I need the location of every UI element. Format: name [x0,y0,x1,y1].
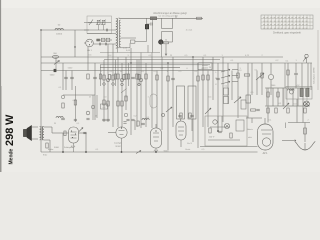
wire v x126 [125,57,127,110]
mains cord symbol [296,143,314,151]
wire mains horizontal [282,140,296,142]
resistor R25 [287,108,289,113]
diode arrow D1 [54,61,60,65]
wire V3 left [64,132,69,134]
box comp Dr1 [246,95,251,103]
band filter box [87,16,112,34]
wire V4 top [155,124,157,128]
wire v x137 [136,60,138,127]
wire v x311 [310,63,312,90]
wire V5 bottom [180,140,182,147]
wire v x131 lower [130,120,132,135]
bus y64.8 short [100,64,210,66]
resistor R4 [103,75,105,80]
resistor R27 [287,70,289,75]
resistor Rc4 [123,75,125,80]
arrow V2 column [121,89,127,94]
output valve V4 envelope [151,128,162,148]
winding bumps [288,89,295,91]
capacitor C3 [105,29,107,32]
transformer winding dark 1 [300,89,303,97]
wire v x152 [151,57,153,128]
inner circle 2 [213,120,217,124]
wire inner bottom [208,139,240,141]
resistor R9 [145,74,147,79]
power box verticals [217,116,219,132]
cap x75 y120 [74,118,77,120]
trimmer capacitor C1 [97,20,100,24]
wire x95 lower [94,95,96,120]
psu v x283 [282,88,284,106]
capacitor C13 [131,76,135,78]
bus y67.3 short [100,66,180,68]
resistor R11 [167,76,169,81]
coil bottom x58 [56,116,63,118]
psu low rail [288,122,310,124]
wire v x173 [172,57,174,127]
psu v x278 [277,88,279,106]
capacitor C7 branch [147,23,151,25]
wire V3 right [79,132,87,134]
down arrow to bus [165,44,167,56]
circle x163 [161,113,164,116]
resistor R26 [304,108,306,113]
transformer winding dark 2 [306,89,309,97]
pin circle c1 [103,83,106,86]
component marks y44 [98,43,100,46]
loudspeaker LS [27,126,32,141]
wire v x288 upper [287,63,289,88]
resistor R14 [202,75,204,80]
svg-text:AZ 1: AZ 1 [263,152,269,155]
wire v x232 [231,71,233,101]
svg-text:Entbr.: Entbr. [48,148,54,151]
valve V1 mixer [86,39,94,47]
wire T4 to anode bus [44,126,52,128]
wire v x115 [115,60,117,86]
psu v x303 [302,88,304,123]
diag arrow switch [234,97,241,103]
wire v x146 top [146,18,148,41]
wire V6 top [264,118,266,124]
mains plug ticks [295,141,296,143]
dark dot comps [62,151,64,153]
resistor Rv2 [125,96,127,101]
comp x166 arrow [166,107,172,112]
svg-text:Schaltplan 298W: Schaltplan 298W [313,67,316,84]
psu v x308 [307,63,309,88]
resistor on V3 input [64,131,66,136]
circle comp2 [139,78,142,81]
wire x152 long vertical [152,18,154,52]
resistor R18 [261,73,263,78]
wire v x228 [227,63,229,104]
valve small x152 y100 [150,94,157,108]
svg-text:Cu 3: Cu 3 [187,143,192,145]
wire v x141 upper [140,53,142,58]
wire V2 left [108,132,116,134]
svg-text:Netztr.: Netztr. [247,128,253,131]
wire filter mid2 [87,33,116,35]
resistor R6 [117,74,119,79]
wire v x146 [145,63,147,127]
bus AVC y57 [41,56,283,58]
antenna coil L1 [55,28,63,30]
resistor R19 [267,92,269,97]
diag arrow v5 [205,108,211,114]
wire V1 left [84,42,86,44]
wire v x203 [202,57,204,127]
wire v x238 [237,63,239,118]
wire v x56 [55,57,57,71]
wire v x95 [94,63,96,95]
detector valve V2 [116,127,127,138]
bus y60 short [104,59,220,61]
svg-text:5000: 5000 [54,147,60,149]
wire v x152 upper [151,53,153,58]
wire v x63 [62,63,64,90]
resistor R3 [87,74,89,79]
wire x108 y100 [107,101,109,106]
wire top rail [119,17,203,19]
wire v x72 [71,71,73,91]
resistor Rm1 [74,100,76,105]
pin circle c3 [121,83,124,86]
psu drop x285 [285,123,287,129]
wire v x139b [138,60,140,86]
oscillator coil T1 winding bumps [116,19,118,49]
resistor R10 [156,75,158,80]
variable resistor arrow [256,73,264,80]
wire v x104 [103,60,105,122]
wire v x162 [161,57,163,130]
resistor Rc1 [99,74,101,79]
circle v2col [124,113,128,117]
wire filter top [84,22,111,24]
lamp circle inner [224,123,229,128]
wire speaker bottom [32,138,39,140]
psu v x293 [292,88,294,106]
circle x93 y107 [91,105,94,108]
gang drop right [191,119,193,131]
output transformer T4 secondary winding [43,127,45,140]
potentiometer circle [268,74,273,79]
svg-text:Dr: Dr [89,97,91,99]
svg-text:Entst.: Entst. [185,148,191,151]
variable capacitor arrow [89,20,93,26]
svg-text:298: 298 [4,128,16,146]
oscillator coil T1 secondary [119,20,120,47]
heater circle [290,90,294,94]
resistor Rc6 [138,75,140,80]
svg-text:10000: 10000 [56,34,63,36]
tuning gang frame right [188,86,196,119]
capacitor C11 [70,76,74,78]
wire filter mid3 [96,39,112,41]
wire v x86 lower [85,133,87,152]
wire coil taps right [121,37,136,39]
V6 inner circle [262,138,270,146]
comp marks y118 [61,117,65,119]
svg-text:220 V~: 220 V~ [209,137,216,139]
switch stack box 2 [224,97,229,104]
wire x285 upper [284,63,286,88]
wire v x135 lower [134,120,136,130]
gang bottom comps [178,114,182,116]
svg-text:Drehkond. ganz eingedreht: Drehkond. ganz eingedreht [273,32,301,35]
resistor Rm2 [62,103,64,108]
wire v x223 [222,57,224,122]
wire y44 to x146 [135,41,147,43]
capacitor C10 [64,76,68,78]
V4 electrodes [153,132,159,134]
wire drop from rail [175,16,177,19]
inner box [236,120,244,131]
V2 inner electrodes [119,130,125,132]
circle comp [120,78,123,81]
psu v x297 low [296,99,298,123]
tuning gang frame left [177,86,185,119]
wire v x208 [207,71,209,128]
wire T1 top to rail [118,18,120,19]
V6 anode lines [261,129,272,131]
cap v2col [123,121,126,123]
scan edge left [0,0,2,172]
electrolytic C9 [159,40,163,44]
gang drop left [180,119,182,121]
wire v x218 [217,63,219,130]
psu cell box right [287,88,307,106]
svg-text:L: L [215,72,216,74]
switch stack box 1 [224,88,229,95]
wire coil core down [116,48,118,52]
filter inner stubs [98,25,100,30]
rectifier valve V6 envelope [258,124,274,150]
arrow at bus [136,151,141,154]
V5 electrodes [178,126,184,128]
resistor x122 y101 [121,101,123,106]
junction dot [74,46,75,47]
psu cell box left [267,88,285,106]
psu top rail [265,87,310,89]
psu v x268 [267,88,269,123]
loop wire lower [162,31,173,33]
wire v x93 [92,95,94,120]
oscillator coil T1 core [116,18,118,48]
component coil-right box [131,40,135,43]
resistor R16v [244,74,250,76]
box comp x243 [241,100,246,109]
circle x63 y97 [61,95,64,98]
wire v x141 [140,57,142,128]
capacitor C14 [171,77,175,79]
svg-text:W 62: W 62 [115,146,121,148]
V3 bottom wire [73,143,75,152]
wire v x75 from antenna region [74,30,76,57]
wire x148 extend [147,45,149,53]
resistor R12 [197,76,199,81]
power section box [205,116,247,146]
wire speaker top [32,126,39,128]
svg-text:W: W [4,114,16,125]
bandswitch arrow 3 [221,82,230,85]
coil y119 x145 [142,118,149,120]
right edge faint line [317,30,319,90]
wire antenna horizontal [41,29,89,31]
grid arrow V3 [79,128,83,132]
svg-text:Lautspr.: Lautspr. [114,142,122,145]
resistor R15 [237,73,239,78]
output transformer T4 primary winding [40,127,42,140]
svg-text:0,1: 0,1 [77,123,80,125]
wire v x118 [117,57,119,127]
wire v x252b [251,63,253,95]
wire y95 link [63,94,95,96]
wire v x113 [112,44,114,127]
wire v x262 [261,63,263,95]
wire filter mid1 [84,29,116,31]
wire v x248 [247,63,249,118]
psu v x298 [297,88,299,106]
resistor R1 [150,17,156,20]
svg-text:0,3: 0,3 [103,107,106,109]
wire v x66 [65,71,67,91]
wire v x157 [156,71,158,129]
antenna post A [305,54,308,57]
capacitor C15 [216,77,220,79]
svg-text:W: W [54,123,56,125]
wire T4 bottom to HT [44,139,50,141]
wire bus y151 bottom right [135,151,258,153]
antenna arrow [303,58,306,62]
wire v x213 [212,57,214,100]
bandswitch arrow 2 [221,76,230,79]
output transformer T4 core [40,126,42,140]
hum comp marks [251,109,256,111]
comp above arrow [164,42,169,44]
trimmer capacitor C2 [102,20,105,24]
wire v x97 [96,95,98,118]
psu mid rail [265,105,310,107]
power box dark dot [217,130,219,132]
resistor x118 y101 [117,101,119,106]
resistor R5 [112,75,114,80]
wire x161 extend [161,42,163,57]
resistor R24 [275,108,277,113]
table cell text marks [263,17,265,19]
wire V2 bottom [121,138,123,152]
dark junction x55 [54,69,57,72]
bus y52 faint [100,52,160,54]
wire v x100 [100,65,102,86]
switch contact lines [232,69,238,71]
psu arrow [283,103,289,109]
wire v x168 [167,63,169,150]
resistor R8 [136,74,138,79]
capacitor C8 dark [145,25,148,29]
resistor R2 end [197,17,202,19]
fuse Si [304,128,307,134]
bandswitch arrow 1 [221,70,230,73]
wire mains vertical [304,123,306,143]
wire coil bottom [118,47,130,49]
wire v x198 [197,63,199,148]
wire v x271 [270,63,272,74]
wire bus y146 bottom right [200,146,258,148]
capacitor C16 [83,131,86,133]
capacitor C17 [294,72,298,74]
mains transformer box [286,87,312,100]
wire V4 bottom [155,148,157,152]
wire ground bus bottom [41,151,135,153]
circle comp x88 [86,111,90,115]
bus supply y63 [41,62,312,64]
resistor R23 [267,108,269,113]
svg-text:2 x 0,1: 2 x 0,1 [186,30,193,32]
wire antenna drop [306,58,308,63]
component row y40 [97,39,100,42]
V3 grid lines [71,131,77,133]
inner comps [209,128,211,133]
capacitor C12 [93,76,97,78]
valve pin circle [106,78,109,81]
wire v x193 [192,57,194,142]
wire v x131 [130,48,132,120]
wire v x63 lower [62,133,64,152]
wire v x128 [128,63,130,86]
dial lamp La1 [304,101,310,107]
svg-text:Mende: Mende [9,148,15,164]
resistor R7 [125,74,127,79]
wire v x75 mid [74,86,76,122]
wire filter mid4 [93,43,116,45]
switch label box [198,63,212,70]
loop wire upper [161,18,163,28]
wire v x257 [256,71,258,96]
valve V5 envelope [176,121,186,140]
comp y118 row2 [102,118,106,120]
resistor R13 [207,75,209,80]
comp cluster above V2 [137,121,139,126]
wire left main vertical [40,30,42,152]
wire v x108 [107,44,109,122]
wire v x296 [295,63,297,73]
power box wire y127 [210,126,230,128]
pin circle c4 [138,83,141,86]
wire v x88 [87,47,89,71]
comp row above V5 [180,113,182,118]
wire detector bottom [246,117,262,119]
resistor Rc3 [114,74,116,79]
AF valve V3 envelope [69,127,79,143]
paper background [0,0,320,172]
box label x104 [101,104,108,109]
psu v x273b [272,88,274,106]
svg-text:nur einseitig geerdet: nur einseitig geerdet [158,15,178,18]
resistor Rc5 [127,74,129,79]
wire v x122 [121,63,123,127]
wire v x302 [301,63,303,88]
resistor R17 [46,143,48,148]
voltage table grid [261,15,313,29]
pin circle c2 [112,83,115,86]
coil L3 [52,55,58,58]
svg-text:schalter: schalter [202,67,209,70]
resistor R20 [277,92,279,97]
resistor Rc2 [108,75,110,80]
resistor x104 y100 [103,100,105,105]
bus screen y70.5 [41,70,225,72]
